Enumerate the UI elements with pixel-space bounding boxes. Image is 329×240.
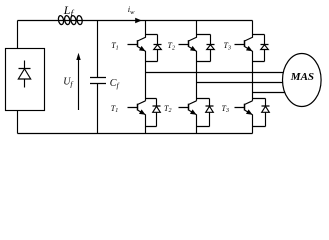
svg-text:MAS: MAS — [290, 71, 314, 83]
svg-text:T1: T1 — [111, 104, 118, 114]
svg-text:Cf: Cf — [110, 78, 120, 90]
svg-text:Lf: Lf — [63, 3, 75, 19]
svg-text:T3: T3 — [224, 41, 231, 51]
svg-text:Uf: Uf — [63, 76, 73, 88]
svg-text:T3: T3 — [222, 104, 229, 114]
svg-text:T1: T1 — [111, 41, 118, 51]
svg-text:T2: T2 — [164, 104, 171, 114]
svg-text:iw: iw — [128, 4, 135, 16]
svg-text:T2: T2 — [168, 41, 175, 51]
